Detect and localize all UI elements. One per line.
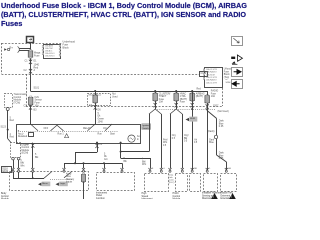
svg-text:Module: Module	[14, 100, 22, 102]
BCM label	[1, 193, 9, 203]
BCM dotted internal line	[50, 179, 72, 181]
ignition key sensor circle	[128, 135, 135, 142]
wire - drop to BCM fuse entry	[83, 163, 85, 168]
junction distribution 3	[103, 162, 105, 164]
fuse block detail table (right)	[203, 68, 222, 88]
wire labels - ecm outs	[20, 160, 24, 167]
svg-text:Panel: Panel	[96, 195, 102, 197]
svg-text:Block: Block	[224, 74, 231, 76]
svg-text:ON: ON	[103, 128, 107, 130]
battery B+ terminal	[4, 45, 19, 52]
svg-text:Red: Red	[10, 120, 15, 122]
tiny text left of prev icon	[226, 78, 231, 84]
svg-text:Engine: Engine	[22, 144, 30, 146]
wire - switch right drop	[120, 143, 122, 158]
wire - airbag drop	[192, 91, 194, 170]
wire label - theft	[163, 139, 168, 147]
wire label - right of distribution	[124, 158, 128, 163]
wire - drop to BCM left entry	[64, 163, 66, 168]
sdm label	[202, 192, 222, 203]
wire - radio branch vertical	[216, 118, 218, 155]
svg-text:Underhood Fuse Block - IBCM 1,: Underhood Fuse Block - IBCM 1, Body Cont…	[1, 1, 247, 10]
ECM terminal 2	[17, 157, 20, 160]
connector on radio wire	[206, 104, 209, 108]
BCM entry terminal 5	[82, 168, 85, 172]
hvac label	[173, 192, 181, 201]
svg-text:Blue: Blue	[219, 123, 224, 125]
wire - ign sensor fuse to switch	[30, 105, 32, 124]
wire - ECM out 2	[18, 160, 20, 169]
svg-text:S101: S101	[34, 87, 40, 90]
svg-text:Run 1: Run 1	[58, 134, 65, 136]
junction distribution 1	[74, 162, 76, 164]
label - underhood fuse block (right)	[224, 68, 232, 78]
key sensor label	[137, 136, 142, 141]
BCM logic arrow 2	[56, 182, 68, 187]
svg-text:Fuse: Fuse	[35, 102, 41, 104]
wire - IBCM drop	[95, 91, 97, 124]
wire - ECM out 1	[13, 160, 15, 169]
BCM internal bus	[13, 172, 44, 179]
engine control module (ECM) dashed box	[11, 143, 21, 158]
junction block dashed boundary left edge	[26, 74, 28, 106]
svg-text:OFF: OFF	[44, 128, 49, 130]
svg-text:Pnk/: Pnk/	[163, 139, 168, 141]
svg-text:Underhood: Underhood	[63, 41, 76, 44]
svg-text:!: !	[231, 195, 232, 199]
splice S101 label	[34, 87, 40, 90]
svg-text:Blk/: Blk/	[20, 163, 24, 165]
junction cluster jog	[120, 151, 122, 153]
sdm terminal	[206, 168, 212, 172]
svg-text:!: !	[213, 195, 214, 199]
off-page arrow connector (battery feed)	[27, 37, 34, 43]
svg-text:THEFT: THEFT	[159, 96, 167, 98]
svg-text:(Top): (Top)	[224, 77, 230, 79]
TCM label	[14, 93, 28, 104]
junction - IBCM tap	[94, 90, 96, 92]
viewer icon - next arrow	[232, 68, 243, 77]
svg-text:Yel: Yel	[194, 139, 198, 141]
wire split hvac	[170, 109, 182, 114]
IBCM 1 fuse holder dashed box	[88, 94, 111, 106]
junction on switch bottom mid	[96, 142, 98, 144]
svg-text:(Dash): (Dash)	[208, 131, 215, 133]
svg-text:0.35: 0.35	[219, 158, 224, 160]
svg-text:High: High	[142, 193, 147, 195]
wire - radio branch diagonal 2	[217, 155, 227, 170]
connector label C100 on boundary	[200, 72, 208, 77]
svg-text:IGN: IGN	[35, 97, 39, 99]
svg-text:1040: 1040	[34, 64, 40, 67]
svg-text:Speed: Speed	[142, 196, 149, 198]
ignition switch dotted travel line	[20, 131, 118, 133]
junction block dashed boundary bottom edge	[26, 106, 222, 108]
junction on dotted bus	[191, 108, 193, 110]
wire label - 5 blk	[35, 154, 39, 159]
switch position label DELAY	[83, 127, 91, 130]
wire - cluster branch jog left	[121, 151, 149, 153]
underhood fuse block dashed boundary (upper-left)	[2, 43, 63, 74]
inline connector C1 on feed wire	[25, 60, 38, 64]
theft module dashed box	[176, 174, 188, 192]
BCM entry terminal 4	[63, 168, 66, 172]
wire - switch to BCM ign	[32, 143, 34, 169]
splice S207	[206, 105, 229, 113]
sdm dashed box	[204, 174, 218, 192]
svg-text:Used: Used	[112, 96, 118, 98]
svg-text:(TCM): (TCM)	[14, 102, 21, 104]
svg-text:Fuse: Fuse	[63, 43, 69, 46]
inline connector C305 on radio branch	[208, 131, 218, 138]
svg-text:S207: S207	[213, 105, 219, 107]
svg-text:Logic: Logic	[60, 183, 66, 185]
wire - BCM through wire	[83, 182, 85, 199]
switch contact label run2	[98, 134, 103, 136]
svg-text:Blue: Blue	[209, 142, 214, 144]
cluster label	[142, 193, 153, 203]
wire label - radio a	[209, 138, 215, 144]
svg-text:0.35: 0.35	[219, 126, 224, 128]
wire - drop to module entry 2	[122, 163, 124, 168]
module label	[96, 191, 107, 202]
transmission control module (TCM) dashed box	[5, 94, 13, 108]
viewer icon - resize arrow	[232, 37, 243, 46]
wire - hvac fuse stub	[176, 91, 178, 109]
svg-text:S123: S123	[1, 127, 7, 129]
splice S123 on tcm wire	[1, 127, 9, 131]
svg-text:Fuse: Fuse	[211, 93, 217, 95]
wire - cluster fuse stub	[155, 91, 157, 109]
svg-text:Body: Body	[1, 193, 7, 195]
wire - TCM to ECM	[8, 111, 12, 143]
connector below switch mid	[95, 144, 102, 148]
switch position label OFF	[44, 128, 49, 130]
radio terminal	[225, 167, 232, 172]
wire - cluster feed elbow	[121, 158, 151, 168]
svg-text:Keep: Keep	[66, 173, 72, 175]
arrow pointer to airbag wire	[186, 117, 198, 122]
svg-text:Block: Block	[63, 46, 70, 49]
switch blade from IBCM wire	[88, 124, 96, 131]
wire split to cluster and theft	[149, 109, 161, 114]
fuse IBCM 1	[93, 94, 98, 104]
wire label - hvac b	[184, 134, 189, 143]
wire label - tcm wire	[10, 117, 15, 122]
svg-text:(ECM): (ECM)	[22, 153, 29, 155]
switch contact label run	[58, 134, 69, 138]
switch blade from ign sensor wire	[31, 124, 39, 131]
switch wiper center	[51, 125, 64, 131]
BCM driver blade 1	[44, 171, 52, 178]
hvac terminal a	[181, 168, 184, 172]
svg-text:(DLC): (DLC)	[169, 182, 175, 184]
svg-text:Fuse: Fuse	[224, 71, 230, 73]
connector on hvac wire	[175, 103, 178, 107]
label - underhood fuse block (left)	[63, 41, 76, 50]
wire - hvac branch a	[170, 114, 172, 168]
svg-text:Fuses: Fuses	[1, 19, 22, 28]
svg-text:1340: 1340	[98, 121, 104, 123]
fuse IGN SENSOR (left drop)	[29, 96, 43, 107]
splice label box S110	[2, 167, 14, 174]
wire label - dark blue lower	[219, 151, 225, 160]
fuse block detail table (left)	[42, 45, 60, 59]
svg-text:S110: S110	[2, 167, 8, 170]
switch position label B	[18, 131, 20, 133]
wire label - airbag	[194, 139, 198, 144]
BCM internal label	[66, 173, 75, 183]
fuse RADIO	[205, 89, 218, 104]
ignition switch box	[17, 125, 141, 144]
fuse HVAC CTRL (BATT)	[174, 92, 187, 103]
wire label - hvac a	[172, 134, 177, 140]
svg-text:B+: B+	[10, 45, 14, 49]
BCM driver blade 2	[64, 171, 72, 177]
cluster terminal	[149, 168, 155, 172]
connector below switch left	[26, 143, 35, 147]
wire - feed below mega fuse	[30, 58, 32, 91]
fuse AIRBAG (BATT)	[190, 92, 205, 102]
wire - theft branch down	[161, 114, 163, 168]
hvac module dashed box	[190, 174, 201, 192]
wire label - cluster feed	[142, 159, 146, 167]
svg-text:SDM: SDM	[226, 82, 231, 84]
wire label - dark blue upper	[219, 119, 225, 128]
sdm warning triangle	[211, 193, 218, 199]
svg-text:Conn.: Conn.	[169, 180, 175, 182]
svg-text:Fuse: Fuse	[180, 102, 186, 104]
cluster right label	[169, 173, 175, 184]
wire - cluster branch down	[149, 114, 151, 152]
fuse MEGA (main)	[28, 50, 41, 59]
svg-text:Mega: Mega	[34, 52, 41, 55]
wire - elbow from switch mid	[75, 143, 98, 164]
svg-text:Blue: Blue	[219, 155, 224, 157]
dashed boundary - fuse block bottom edge	[2, 74, 205, 76]
junction - airbag tap	[191, 90, 193, 92]
junction distribution 2	[83, 162, 85, 164]
wire - main feed vertical from arrow	[30, 42, 32, 50]
switch position label ON	[103, 128, 107, 130]
svg-text:G101: G101	[2, 170, 9, 173]
wire label - red right	[197, 88, 202, 90]
ECM label	[22, 144, 30, 154]
svg-text:U/hood: U/hood	[224, 68, 232, 70]
connector crossing at junction block bottom	[24, 104, 38, 111]
TCM output terminal	[6, 108, 9, 111]
module entry terminal a	[103, 168, 106, 172]
wire - radio stub	[207, 91, 209, 170]
switch blade right	[105, 124, 112, 131]
svg-text:(BATT), CLUSTER/THEFT, HVAC CT: (BATT), CLUSTER/THEFT, HVAC CTRL (BATT),…	[1, 10, 246, 19]
junction - hvac tap	[175, 90, 177, 92]
ignition switch connector label (highlight)	[142, 124, 151, 130]
svg-text:SDM: SDM	[190, 118, 195, 120]
connector on IBCM wire	[89, 104, 101, 112]
junction on switch bottom right	[120, 142, 122, 144]
switch contact label accessory	[18, 132, 34, 138]
wire label - left of elbow	[104, 153, 108, 160]
wire label - dark green	[98, 113, 105, 123]
wire - drop to module entry 1	[104, 163, 106, 168]
hvac terminal b	[191, 168, 198, 172]
viewer icon - projector	[231, 55, 242, 65]
svg-text:Blk/: Blk/	[142, 161, 146, 163]
BCM entry terminal 1	[12, 168, 15, 172]
connector at fuse block boundary C2	[24, 69, 36, 73]
wire - battery positive cable (double line)	[20, 49, 31, 51]
body control module (BCM) dashed box	[10, 172, 89, 191]
svg-text:CLUSTER/: CLUSTER/	[159, 93, 171, 95]
fuse CLUSTER/THEFT	[153, 92, 171, 103]
radio dashed box	[221, 174, 237, 192]
svg-text:Fuse: Fuse	[34, 54, 40, 57]
junction - cluster tap	[154, 90, 156, 92]
wire label - 1040 RED	[34, 64, 40, 70]
svg-text:Red: Red	[197, 88, 202, 90]
dlc terminal	[169, 168, 172, 172]
module entry terminal b	[121, 168, 124, 172]
svg-text:Module: Module	[22, 150, 30, 152]
BCM internal fuse	[81, 173, 85, 183]
main bus wire horizontal	[31, 91, 208, 93]
svg-text:Fuse: Fuse	[159, 99, 165, 101]
wire - radio branch diagonal	[207, 111, 216, 119]
radio label	[221, 192, 236, 203]
wire - distribution horizontal	[64, 163, 122, 165]
ECM terminal 1	[12, 157, 15, 160]
junction block dashed boundary right edge	[222, 88, 224, 106]
svg-text:Run: Run	[98, 134, 103, 136]
instrument cluster dashed box	[145, 174, 169, 192]
BCM logic arrow 1	[38, 182, 50, 187]
wire - hvac branch b	[182, 114, 184, 168]
wire label - below splice	[10, 134, 15, 139]
svg-text:Red: Red	[10, 137, 15, 139]
switch contact label start	[110, 132, 115, 135]
BCM junction internal	[32, 177, 34, 179]
BCM entry terminal 3	[31, 168, 34, 172]
connector on airbag wire	[191, 103, 194, 107]
radio warning triangle	[229, 193, 236, 199]
svg-text:CTRL: CTRL	[180, 96, 187, 98]
label right of IBCM fuse	[112, 93, 118, 99]
BCM entry terminal 2	[17, 168, 20, 172]
connector on cluster wire	[154, 103, 157, 107]
viewer icon - prev arrow	[232, 80, 243, 89]
dotted bus inside fuse block	[155, 109, 216, 111]
module dashed box (instrument panel)	[97, 173, 135, 191]
theft terminal	[160, 168, 166, 172]
